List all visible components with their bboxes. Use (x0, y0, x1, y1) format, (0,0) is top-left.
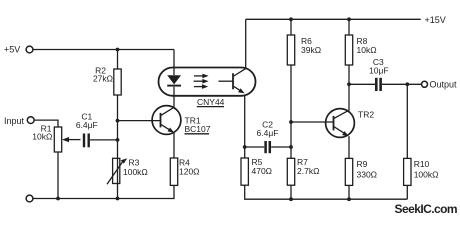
transistor TR2 (326, 109, 355, 138)
wire TR2 emitter to R9 (348, 136, 350, 158)
node junction C3 left (347, 82, 351, 86)
wire R1 bottom (57, 152, 59, 199)
node junction C2 right / R7 (289, 145, 293, 149)
svg-text:120Ω: 120Ω (179, 167, 200, 177)
wire R8 top (348, 19, 350, 35)
node junction C1 (116, 138, 120, 142)
svg-text:R10: R10 (414, 159, 430, 169)
wire R10 bottom (406, 185, 408, 199)
svg-text:10kΩ: 10kΩ (32, 132, 52, 142)
wire input to R1 top (34, 120, 58, 127)
wire C2 right (271, 146, 291, 148)
svg-text:6.4μF: 6.4μF (257, 128, 279, 138)
wire C1 right to junction (90, 139, 118, 141)
svg-text:SeekIC.com: SeekIC.com (395, 202, 458, 216)
svg-text:27kΩ: 27kΩ (93, 73, 113, 83)
svg-text:6.4μF: 6.4μF (76, 120, 98, 130)
node junction C2 left (243, 145, 247, 149)
wire R6 top (290, 19, 292, 35)
svg-text:+5V: +5V (4, 45, 20, 55)
wire rail corner down to optocoupler LED (173, 50, 175, 68)
resistor R2 (114, 69, 121, 95)
node Input terminal (27, 117, 34, 124)
svg-text:10kΩ: 10kΩ (357, 45, 377, 55)
capacitor C1 (84, 134, 89, 148)
transistor TR1 (152, 106, 181, 135)
wire R2 top (117, 50, 119, 70)
wire C3 right (382, 83, 422, 85)
node junction R10 top (405, 82, 409, 86)
wire phototransistor collector to +15V rail (245, 19, 247, 67)
wire R6 bottom column (290, 65, 292, 158)
wire R9 bottom (348, 185, 350, 199)
diode LED D1 (167, 75, 181, 85)
svg-text:CNY44: CNY44 (197, 97, 225, 107)
node junction R1 bottom (56, 197, 60, 201)
wire R8 bottom to TR2 collector (348, 65, 350, 111)
node junction R9 bottom (347, 197, 351, 201)
resistor R10 (404, 158, 411, 185)
resistor R8 (345, 35, 352, 65)
wire TR2 base (291, 121, 334, 123)
wire TR1 emitter to R4 (173, 133, 175, 158)
wire R5 bottom corner (245, 185, 408, 199)
node +5V terminal (26, 46, 33, 53)
svg-text:470Ω: 470Ω (252, 166, 273, 176)
wire optocoupler light arrow 3 (194, 84, 208, 89)
svg-text:100kΩ: 100kΩ (123, 167, 148, 177)
op-amp U1 optocoupler CNY44 body (159, 68, 256, 96)
svg-text:330Ω: 330Ω (357, 169, 378, 179)
svg-text:TR2: TR2 (358, 110, 374, 120)
wire phototransistor emitter down (244, 96, 246, 158)
node junction R3 bottom (116, 197, 120, 201)
resistor R3 variable (113, 158, 120, 183)
wire +15V rail (246, 18, 421, 20)
svg-text:+15V: +15V (425, 15, 446, 25)
wire +5V rail (33, 49, 174, 51)
node junction R6/TR2 base (289, 120, 293, 124)
node ground terminal left (26, 195, 33, 202)
wire C3 left (349, 83, 375, 85)
wire LED cathode to TR1 collector (173, 87, 175, 109)
diode LED anode wire (173, 68, 175, 76)
svg-text:BC107: BC107 (185, 124, 211, 134)
node junction rail R8 (347, 17, 351, 21)
node junction rail R6 (289, 17, 293, 21)
svg-text:Output: Output (430, 80, 458, 90)
node Output terminal (422, 81, 428, 87)
resistor R7 (287, 158, 294, 185)
svg-text:2.7kΩ: 2.7kΩ (297, 166, 319, 176)
svg-text:R9: R9 (357, 159, 368, 169)
svg-text:10μF: 10μF (369, 66, 389, 76)
wire R1 wiper arrow (66, 139, 81, 141)
svg-text:Input: Input (4, 116, 25, 126)
wire R2 bottom column (117, 95, 119, 199)
wire optocoupler light arrow 2 (194, 79, 209, 84)
resistor R6 (287, 35, 294, 65)
node junction rail/R2 (116, 48, 120, 52)
wire optocoupler light arrow 1 (194, 74, 209, 79)
wire R7 bottom (290, 185, 292, 199)
wire R4 bottom corner (33, 185, 174, 198)
wire R10 top (406, 84, 408, 158)
wire TR1 base (118, 120, 161, 122)
svg-text:39kΩ: 39kΩ (301, 45, 321, 55)
capacitor C3 (376, 78, 380, 91)
node junction R7 bottom (289, 197, 293, 201)
capacitor C2 (266, 141, 270, 153)
resistor R1 potentiometer (54, 127, 61, 152)
transistor phototransistor of CNY44 (219, 69, 246, 94)
resistor R9 (345, 158, 352, 185)
svg-text:100kΩ: 100kΩ (414, 169, 439, 179)
wire C2 left (245, 146, 265, 148)
node junction TR1 base (116, 119, 120, 123)
resistor R5 (241, 158, 248, 185)
resistor R4 (170, 158, 177, 185)
wire R3 arrow (107, 160, 124, 185)
